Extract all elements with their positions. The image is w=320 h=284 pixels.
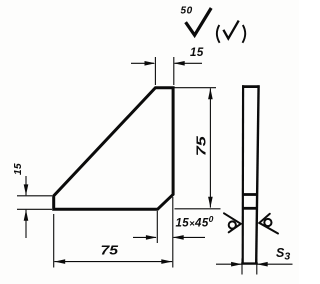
right 75 dim line — [209, 88, 211, 207]
chamfer+bottom dim extension line right — [172, 197, 174, 268]
side view: right edge — [256, 85, 258, 263]
bottom 75 dim arrow left — [54, 259, 65, 264]
s3 dim extension line left — [241, 259, 243, 275]
bottom 75 dim arrow right — [161, 259, 172, 264]
surface roughness check symbol (general) — [186, 8, 212, 35]
s3 dim arrow right-pointing — [231, 262, 242, 267]
chamfer dim line left segment — [133, 236, 156, 238]
top dim arrow left — [145, 61, 156, 66]
svg-text:15: 15 — [190, 47, 204, 59]
parenthesized small check — [223, 21, 238, 39]
side view: top edge — [242, 85, 260, 88]
top dim extension line right — [173, 57, 175, 85]
parenthesized check symbol ( — [217, 25, 220, 43]
svg-text:75: 75 — [193, 135, 208, 156]
right 75 dim arrow down — [208, 197, 213, 208]
side view band line upper — [242, 193, 257, 196]
s3 dim arrow left-pointing — [257, 262, 268, 267]
left 15 dim line upper segment — [25, 176, 27, 195]
bottom 75 dim extension line left — [53, 214, 55, 268]
s3 dim line right segment — [257, 263, 292, 265]
main view: gusset plate outline — [54, 88, 173, 210]
s3 dim extension line right — [256, 259, 258, 275]
svg-text:50: 50 — [181, 5, 193, 16]
top dim arrow right — [174, 61, 185, 66]
chamfer dim line right segment — [173, 236, 205, 238]
left 15 dim arrow down — [24, 184, 29, 195]
top dim extension line left — [154, 57, 156, 85]
left 15 dim arrow up — [24, 210, 29, 221]
svg-text:15: 15 — [13, 163, 24, 175]
top dim line left segment — [131, 62, 154, 64]
left 15 dim extension line top — [17, 195, 52, 197]
chamfer dim arrow right-pointing — [146, 235, 157, 240]
right 75 dim bottom extension line — [175, 208, 221, 210]
chamfer dim extension line left — [156, 211, 158, 243]
right 75 dim top extension line — [175, 87, 217, 89]
svg-text:75: 75 — [101, 243, 119, 258]
s3 dim line left segment — [216, 263, 241, 265]
parenthesized check symbol ) — [243, 25, 246, 43]
bottom 75 dim line — [54, 261, 172, 263]
left 15 dim line lower segment — [25, 210, 27, 238]
left 15 dim extension line bottom — [17, 208, 52, 210]
side view bottom edge (coincides with s3 dim line) — [241, 262, 258, 264]
right 75 dim arrow up — [208, 88, 213, 99]
left no-machining symbol (check with circle) — [224, 213, 241, 232]
side view band line lower — [242, 207, 257, 210]
top dim line right segment — [175, 62, 203, 64]
chamfer dim arrow left-pointing — [173, 235, 184, 240]
side view: left edge — [242, 85, 245, 263]
right no-machining symbol (check with circle) — [259, 214, 278, 234]
